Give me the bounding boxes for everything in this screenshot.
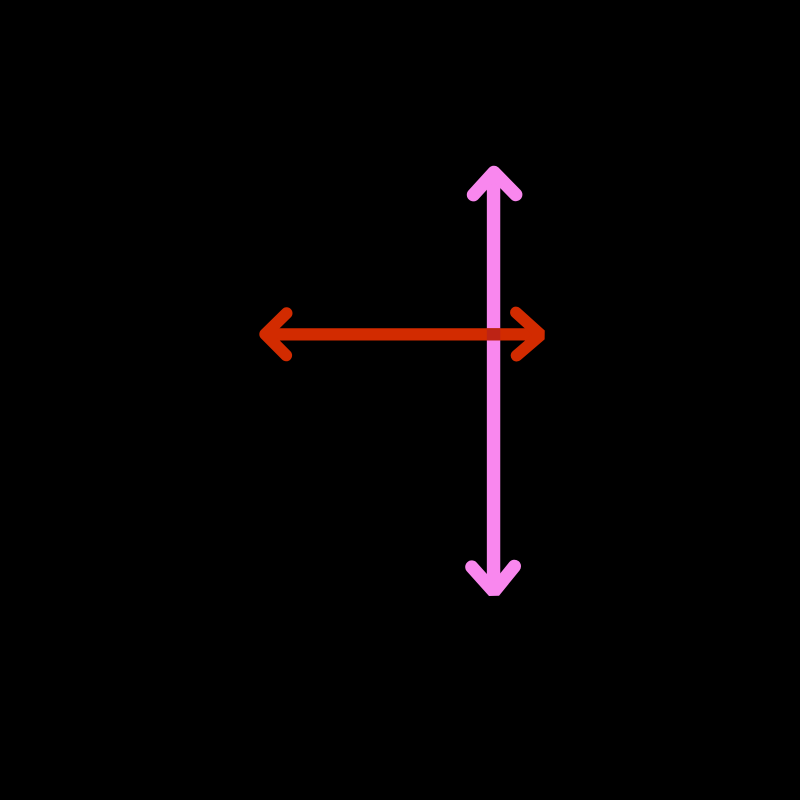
pink bottom arrowhead — [472, 566, 515, 591]
pink top arrowhead — [473, 172, 515, 195]
pink vertical double-headed arrow — [472, 172, 516, 591]
wire: pink vertical shaft — [487, 179, 500, 582]
overlap patch where red crosses pink — [487, 328, 500, 340]
wire: red horizontal shaft — [266, 328, 538, 340]
red left arrowhead — [265, 313, 286, 355]
red horizontal double-headed arrow — [265, 313, 541, 356]
red right arrowhead — [516, 313, 541, 356]
